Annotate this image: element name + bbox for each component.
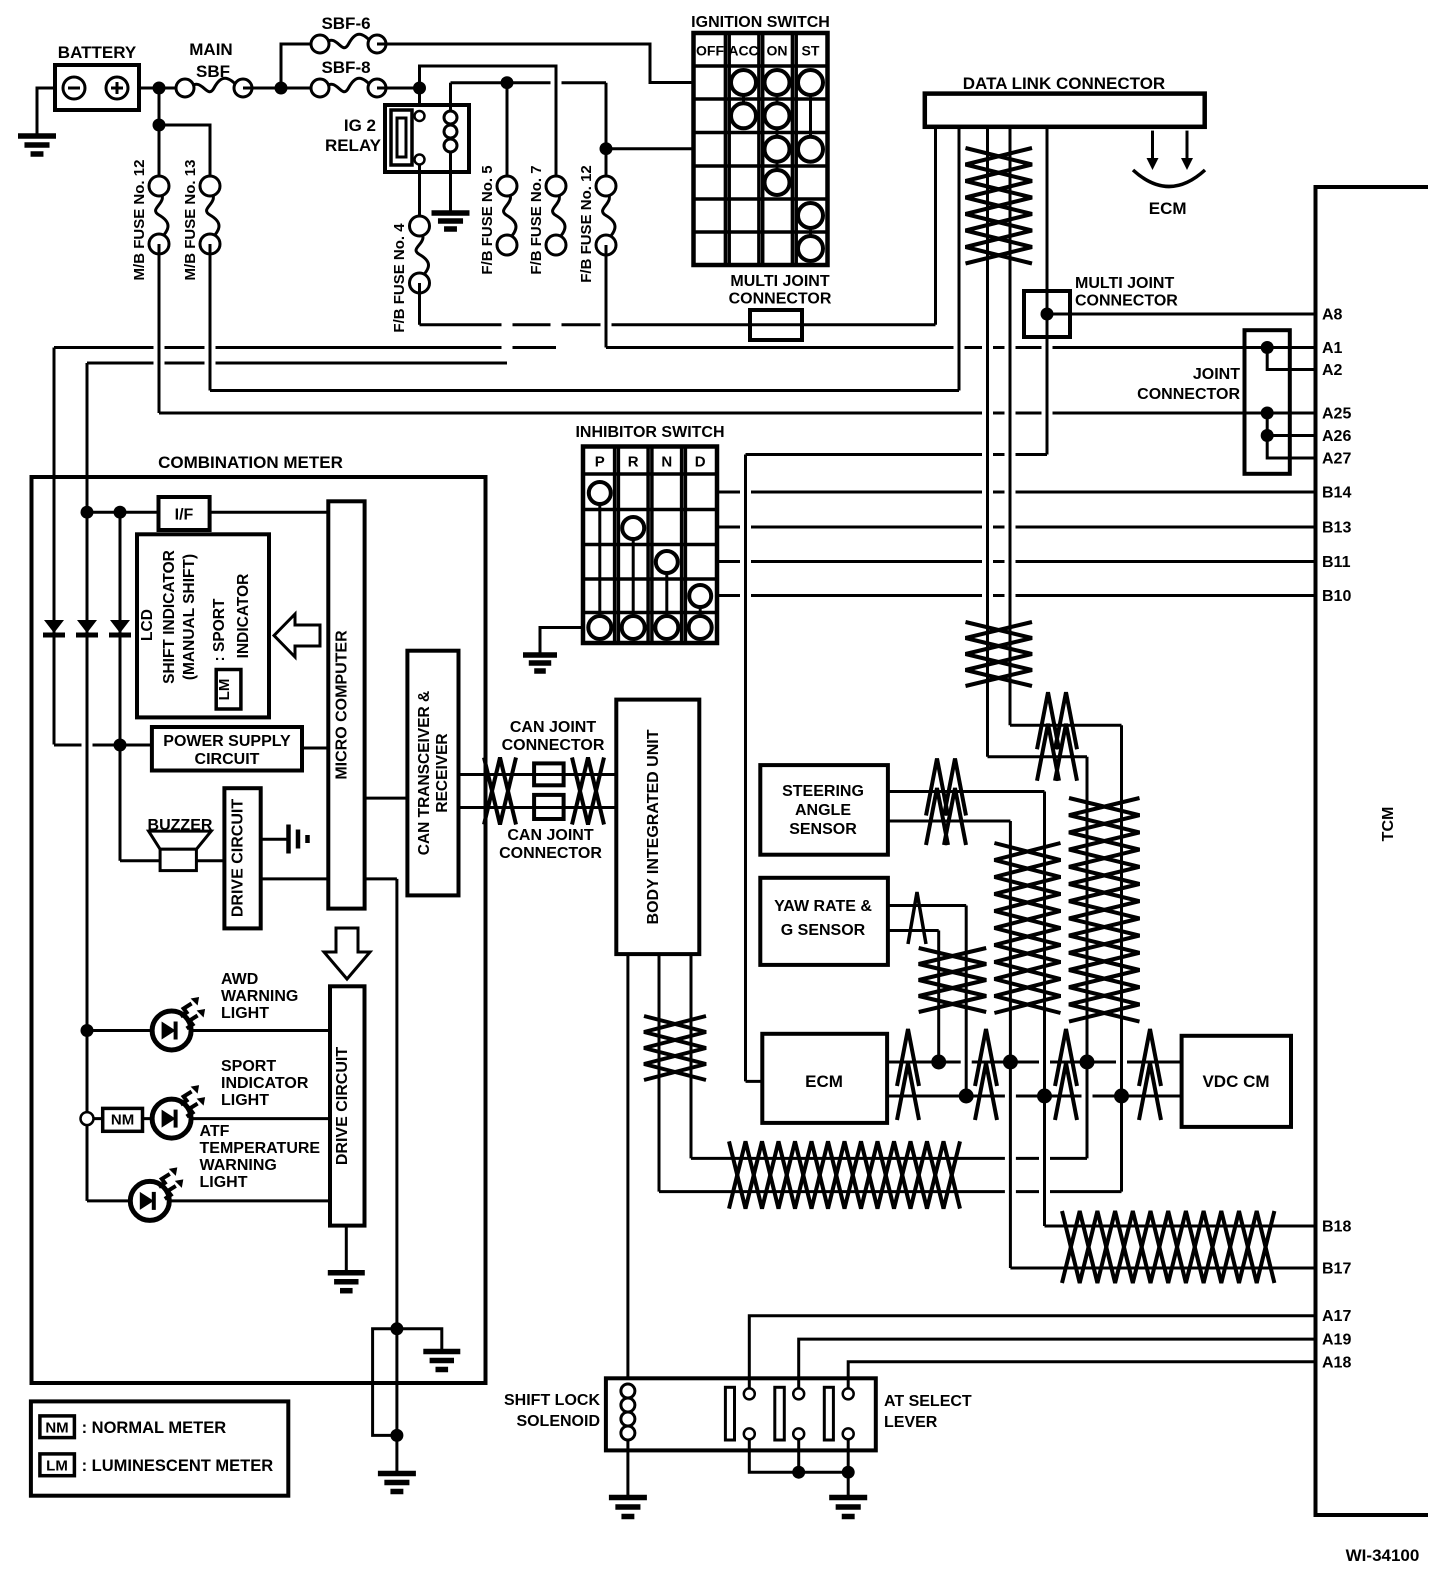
wire battery feed down to M/B fuses	[158, 88, 161, 186]
wire BIU pin1 to shift lock solenoid	[626, 954, 629, 1383]
svg-text:SOLENOID: SOLENOID	[516, 1413, 600, 1430]
svg-text:AWD: AWD	[221, 971, 258, 988]
svg-text:POWER SUPPLY: POWER SUPPLY	[163, 733, 291, 750]
LED ATF temperature warning light	[130, 1181, 169, 1220]
ground (AT select lever)	[829, 1495, 867, 1501]
wire battery positive to MAIN SBF	[139, 87, 185, 90]
wire relay contact to F/B fuse No.4	[418, 164, 421, 216]
svg-text:F/B FUSE No. 12: F/B FUSE No. 12	[578, 165, 595, 283]
wire ignition power bus to joint connector A1	[606, 346, 1316, 349]
wire lever commons	[749, 1439, 848, 1472]
svg-text:A8: A8	[1322, 307, 1343, 324]
ground (meter internal)	[423, 1349, 460, 1355]
wire buzzer to drive circuit	[196, 859, 224, 862]
combination meter box	[32, 477, 486, 1383]
ground (drive circuit, rotated)	[286, 825, 291, 854]
svg-text:JOINT: JOINT	[1193, 366, 1240, 383]
svg-text:MICRO COMPUTER: MICRO COMPUTER	[334, 630, 351, 780]
fuse MAIN SBF	[189, 78, 239, 92]
diode (meter supply 3)	[110, 620, 130, 633]
svg-text:N: N	[661, 454, 672, 471]
svg-text:I/F: I/F	[175, 507, 194, 524]
inhibitor switch column links	[598, 493, 601, 628]
wire CAN L meter to body integrated unit	[459, 806, 617, 809]
svg-text:CONNECTOR: CONNECTOR	[1137, 386, 1240, 403]
wire joint connector link A25-A27	[1267, 413, 1315, 458]
multi joint connector (ignition)	[750, 310, 802, 340]
wire M/B fuse No.13 bus to DLC pin2	[210, 389, 959, 392]
wire I/F to micro computer	[210, 511, 329, 514]
svg-text:A17: A17	[1322, 1308, 1351, 1325]
inhibitor switch grid	[583, 447, 717, 644]
node battery feed	[153, 82, 166, 95]
relay contact terminal bottom	[415, 155, 425, 165]
svg-text:A2: A2	[1322, 362, 1343, 379]
wire DLC CAN-B down	[1009, 127, 1012, 726]
svg-text:SBF: SBF	[196, 62, 230, 81]
wire ATF warning light	[87, 1199, 330, 1202]
fuse F/B No.12	[603, 190, 615, 241]
wire battery negative to ground	[37, 88, 55, 134]
legend NM box	[40, 1416, 75, 1438]
svg-text:WI-34100: WI-34100	[1346, 1546, 1420, 1565]
wire drive circuit to ground	[261, 838, 287, 841]
wire branch to M/B fuse No.13	[159, 125, 210, 186]
node I/F feed 1	[81, 506, 94, 519]
NM box	[103, 1108, 143, 1131]
wire steering sensor CAN 2	[888, 820, 1011, 823]
svg-text:F/B FUSE No. 4: F/B FUSE No. 4	[391, 223, 408, 333]
svg-text:M/B FUSE No. 13: M/B FUSE No. 13	[182, 160, 199, 281]
wire inhibitor R to TCM B13	[717, 526, 1316, 529]
wire steering sensor CAN 2 down	[1009, 821, 1012, 1268]
wire power supply to micro computer	[302, 747, 328, 750]
battery	[55, 65, 139, 110]
twisted pair (DLC CAN upper)	[966, 148, 1033, 264]
wire AWD warning light	[87, 1029, 330, 1032]
wire inhibitor P to TCM B14	[717, 491, 1316, 494]
drive circuit box (buzzer)	[224, 788, 260, 928]
wire meter supply 1 down	[53, 348, 56, 745]
wire node down to F/B fuse No.12	[605, 149, 608, 176]
LCD shift indicator box	[137, 534, 269, 717]
twisted pair (TCM B18/B17)	[1062, 1211, 1274, 1283]
twist marker (steering sensor)	[926, 759, 948, 816]
twisted pair (CAN meter right)	[572, 758, 604, 825]
buzzer	[149, 831, 212, 849]
node meter ground 2	[390, 1429, 403, 1442]
svg-text:RECEIVER: RECEIVER	[434, 733, 451, 812]
LED sport indicator light	[152, 1099, 191, 1138]
wire DLC CAN-B down	[1120, 725, 1123, 1191]
svg-text:MULTI JOINT: MULTI JOINT	[1075, 275, 1174, 292]
wire relay coil feed from ignition switch	[451, 81, 607, 84]
fuse SBF-6	[324, 34, 373, 48]
steering angle sensor box	[760, 765, 888, 855]
multi joint connector (diagnosis)	[1024, 291, 1070, 337]
svg-text:ANGLE: ANGLE	[795, 802, 851, 819]
wire CAN bus low	[887, 1095, 1182, 1098]
wire relay coil to ground	[449, 172, 452, 212]
wire to chassis ground	[395, 1435, 398, 1472]
svg-text:B18: B18	[1322, 1219, 1351, 1236]
solenoid coil	[621, 1384, 635, 1398]
wire meter supply 2 down	[86, 363, 89, 1201]
svg-text:LM: LM	[46, 1458, 68, 1475]
wire joint connector link to TCM A2	[1267, 348, 1315, 370]
node coil feed to F/B fuse No.5	[501, 76, 514, 89]
svg-text:ATF: ATF	[200, 1123, 230, 1140]
svg-text:CAN JOINT: CAN JOINT	[510, 719, 596, 736]
svg-text:B13: B13	[1322, 520, 1351, 537]
node CAN high yaw	[931, 1055, 946, 1070]
ignition switch contacts	[731, 70, 756, 95]
wire DLC pin2 down to M/B No.13 bus	[958, 127, 961, 391]
svg-text:CONNECTOR: CONNECTOR	[502, 737, 605, 754]
diode (meter supply 1)	[44, 620, 64, 633]
svg-text:INDICATOR: INDICATOR	[221, 1075, 309, 1092]
wire CAN bus high	[887, 1061, 1182, 1064]
svg-text:A18: A18	[1322, 1354, 1351, 1371]
svg-text:F/B FUSE No. 7: F/B FUSE No. 7	[528, 165, 545, 274]
wire diagnosis line to ECM	[746, 453, 1048, 456]
wire F/B fuse No.5 to meter	[87, 362, 507, 365]
wire down to F/B fuse No.5	[506, 83, 509, 176]
wire MAIN SBF to SBF fuses	[243, 87, 320, 90]
node CAN high DLC	[1080, 1055, 1095, 1070]
wire DLC CAN-A down	[1086, 757, 1089, 1159]
wire steering sensor CAN 1 down	[1043, 792, 1046, 1227]
svg-text:B11: B11	[1322, 554, 1351, 571]
svg-text:A19: A19	[1322, 1332, 1351, 1349]
twisted pair (CAN meter left)	[484, 758, 516, 825]
svg-text:A25: A25	[1322, 406, 1351, 423]
wire BIU CAN line 2	[659, 1190, 1122, 1193]
svg-text:B14: B14	[1322, 485, 1351, 502]
svg-text:LEVER: LEVER	[884, 1414, 938, 1431]
node lever common 2	[842, 1466, 855, 1479]
wire SBF-8 to IG2 relay contact	[377, 87, 420, 90]
svg-text:: LUMINESCENT METER: : LUMINESCENT METER	[82, 1457, 274, 1475]
svg-text:A26: A26	[1322, 428, 1351, 445]
CAN transceiver box	[407, 651, 458, 896]
ignition switch grid	[694, 33, 828, 265]
wire lever contact 2 to TCM A19	[799, 1339, 1316, 1388]
svg-text:CONNECTOR: CONNECTOR	[499, 845, 602, 862]
svg-text:LIGHT: LIGHT	[200, 1174, 248, 1191]
micro computer box	[328, 501, 364, 908]
wire meter supply 3 down	[119, 512, 122, 861]
node M/B fuse branch	[153, 119, 166, 132]
wire yaw sensor CAN 1	[888, 904, 966, 907]
AT select lever contact bars	[725, 1387, 734, 1440]
svg-text:OFF: OFF	[696, 43, 724, 59]
svg-text:(MANUAL SHIFT): (MANUAL SHIFT)	[181, 554, 198, 680]
svg-text:SBF-6: SBF-6	[321, 14, 370, 33]
node ignition ON feed	[600, 142, 613, 155]
ground (meter chassis)	[378, 1471, 416, 1477]
svg-text:G SENSOR: G SENSOR	[781, 922, 866, 939]
wire DLC CAN-A down	[986, 127, 989, 757]
fuse F/B No.4	[416, 230, 428, 279]
fuse SBF-8	[324, 78, 373, 92]
svg-text:B10: B10	[1322, 588, 1351, 605]
wire DLC pin5 / diagnosis line down	[1046, 127, 1049, 455]
relay IG2	[385, 105, 469, 172]
svg-text:WARNING: WARNING	[221, 988, 298, 1005]
wire node to ignition switch	[606, 147, 694, 150]
wire CAN H meter to body integrated unit	[459, 773, 617, 776]
wire BIU CAN line 1	[691, 1157, 1087, 1160]
legend LM box	[40, 1454, 75, 1476]
twisted pair (steering sensor risers)	[994, 843, 1060, 1013]
wire inhibitor D to TCM B10	[717, 594, 1316, 597]
node CAN low steering	[1037, 1089, 1052, 1104]
wire to meter internal ground	[397, 1329, 442, 1350]
data link connector	[925, 94, 1205, 127]
wire drive circuit 2 to ground	[345, 1226, 348, 1271]
ignition switch column links	[742, 83, 745, 116]
ground (battery)	[18, 133, 56, 139]
wire lever contact 1 to TCM A17	[749, 1316, 1315, 1388]
node CAN high steering	[1003, 1055, 1018, 1070]
fuse M/B No.13	[207, 190, 219, 240]
svg-text:WARNING: WARNING	[200, 1157, 277, 1174]
svg-text:A27: A27	[1322, 451, 1351, 468]
svg-text:A1: A1	[1322, 340, 1343, 357]
svg-text:MULTI JOINT: MULTI JOINT	[730, 273, 829, 290]
fuse F/B No.7	[553, 190, 565, 241]
svg-text:TCM: TCM	[1380, 807, 1397, 842]
wire yaw sensor CAN 2 down	[937, 931, 940, 1063]
wire TCM A26	[1267, 434, 1315, 437]
node lever common 1	[792, 1466, 805, 1479]
wire NM to sport LED	[93, 1117, 330, 1120]
arrow (micro computer down)	[324, 928, 370, 979]
svg-text:BATTERY: BATTERY	[58, 43, 137, 62]
ground (relay coil)	[432, 210, 470, 216]
twisted pair (BIU to CAN bus)	[729, 1141, 960, 1208]
svg-text:D: D	[695, 454, 706, 471]
I/F box	[159, 497, 210, 530]
svg-text:NM: NM	[45, 1420, 68, 1437]
svg-text:YAW RATE &: YAW RATE &	[774, 898, 872, 915]
wire SBF-6 to ignition switch	[377, 44, 694, 83]
svg-text:MAIN: MAIN	[189, 40, 232, 59]
svg-text:ACC: ACC	[728, 43, 758, 59]
power supply circuit box	[152, 727, 302, 771]
svg-text:SBF-8: SBF-8	[321, 58, 370, 77]
svg-text:: SPORT: : SPORT	[211, 598, 228, 661]
svg-text:DRIVE CIRCUIT: DRIVE CIRCUIT	[230, 799, 247, 917]
node relay contact feed	[413, 82, 426, 95]
ground (drive circuit 2)	[328, 1270, 365, 1276]
wire to buzzer	[120, 859, 160, 862]
joint connector	[1245, 330, 1290, 474]
svg-text:CONNECTOR: CONNECTOR	[729, 291, 832, 308]
wire branch up to SBF-6	[281, 44, 320, 88]
svg-text:STEERING: STEERING	[782, 783, 864, 800]
CAN joint connector box 1	[534, 763, 564, 785]
node I/F feed 2	[114, 506, 127, 519]
inhibitor switch contacts	[589, 482, 611, 504]
AT select lever terminals	[744, 1388, 755, 1399]
wire micro computer to meter ground	[365, 877, 397, 880]
svg-text:R: R	[628, 454, 639, 471]
VDC CM box	[1182, 1036, 1291, 1127]
node meter ground 1	[390, 1322, 403, 1335]
legend box	[31, 1401, 288, 1495]
svg-text:CIRCUIT: CIRCUIT	[195, 751, 260, 768]
wire power supply feed	[54, 744, 152, 747]
node CAN low yaw	[959, 1089, 974, 1104]
svg-text:DATA LINK CONNECTOR: DATA LINK CONNECTOR	[963, 74, 1165, 93]
svg-text:RELAY: RELAY	[325, 136, 382, 155]
wire solenoid to ground	[626, 1440, 629, 1496]
CAN joint connector box 2	[534, 795, 564, 819]
wire micro computer to CAN transceiver	[365, 797, 408, 800]
svg-text:LIGHT: LIGHT	[221, 1005, 269, 1022]
ground (shift lock solenoid)	[609, 1495, 647, 1501]
svg-text:IGNITION SWITCH: IGNITION SWITCH	[691, 14, 830, 31]
svg-text:B17: B17	[1322, 1261, 1351, 1278]
svg-text:ON: ON	[767, 43, 788, 59]
svg-text:ST: ST	[802, 43, 820, 59]
svg-text:AT SELECT: AT SELECT	[884, 1393, 972, 1410]
svg-text:NM: NM	[111, 1112, 134, 1129]
wire TCM B18	[1045, 1225, 1316, 1228]
ECM arrows (to ECM)	[1151, 131, 1154, 160]
wire DLC CAN-B jog	[1010, 724, 1122, 727]
wire inhibitor N to TCM B11	[717, 560, 1316, 563]
twisted pair (BIU)	[644, 1016, 706, 1080]
svg-text:SHIFT INDICATOR: SHIFT INDICATOR	[161, 550, 178, 684]
wire DLC CAN-A jog	[988, 755, 1088, 758]
wire F/B fuse No.4 to data link connector via multi joint connector	[418, 283, 421, 325]
svg-text:SPORT: SPORT	[221, 1058, 276, 1075]
LED AWD warning light	[152, 1011, 191, 1050]
wire M/B fuse No.12 backup bus to joint connector A25	[159, 412, 1316, 415]
fuse M/B No.12	[156, 190, 168, 240]
wire steering sensor CAN 1	[888, 790, 1045, 793]
node SBF branch	[275, 82, 288, 95]
svg-text:COMBINATION METER: COMBINATION METER	[158, 453, 343, 472]
svg-text:INDICATOR: INDICATOR	[235, 574, 252, 659]
wire TCM B17	[1010, 1267, 1315, 1270]
svg-text:LM: LM	[216, 679, 233, 701]
yaw rate and G sensor box	[760, 878, 888, 965]
svg-text:CONNECTOR: CONNECTOR	[1075, 293, 1178, 310]
svg-text:TEMPERATURE: TEMPERATURE	[200, 1140, 321, 1157]
svg-text:SHIFT LOCK: SHIFT LOCK	[504, 1392, 600, 1409]
wire meter ground down	[395, 879, 398, 1329]
wire down to node at ignition ON row	[605, 83, 608, 149]
svg-text:VDC CM: VDC CM	[1202, 1072, 1269, 1091]
svg-text:INHIBITOR SWITCH: INHIBITOR SWITCH	[575, 424, 724, 441]
twisted pair (yaw sensor)	[919, 948, 987, 1012]
node joint connector A26	[1261, 429, 1274, 442]
node AWD light feed	[81, 1024, 94, 1037]
LM box (sport indicator)	[216, 670, 241, 710]
wire BIU pin2 down	[658, 954, 661, 1192]
ECM box	[762, 1034, 887, 1123]
wire DLC pin1 down	[934, 127, 937, 325]
twisted pair (DLC CAN lower)	[966, 622, 1033, 686]
twist marker (CAN jog)	[1037, 692, 1059, 749]
body integrated unit box	[616, 700, 699, 955]
svg-text:CAN TRANSCEIVER &: CAN TRANSCEIVER &	[416, 691, 433, 855]
wire F/B fuse No.7 to meter	[54, 346, 556, 349]
svg-text:ECM: ECM	[1149, 199, 1187, 218]
svg-text:F/B FUSE No. 5: F/B FUSE No. 5	[479, 165, 496, 274]
ground (inhibitor switch)	[523, 652, 557, 658]
wire to I/F	[87, 511, 159, 514]
svg-text:CAN JOINT: CAN JOINT	[507, 827, 593, 844]
wire yaw sensor CAN 2	[888, 929, 939, 932]
node joint connector A25	[1261, 407, 1274, 420]
wire yaw sensor CAN 1 down	[965, 906, 968, 1097]
fuse F/B No.5	[504, 190, 516, 241]
svg-text:M/B FUSE No. 12: M/B FUSE No. 12	[131, 160, 148, 281]
node power supply feed	[114, 739, 127, 752]
svg-text:ECM: ECM	[805, 1072, 843, 1091]
node CAN low DLC	[1114, 1089, 1129, 1104]
svg-text:: NORMAL METER: : NORMAL METER	[82, 1419, 227, 1437]
svg-text:DRIVE CIRCUIT: DRIVE CIRCUIT	[334, 1047, 351, 1165]
wire BIU pin3 down	[690, 954, 693, 1158]
wire meter ground down 2	[395, 1329, 398, 1436]
drive circuit box (lights)	[330, 986, 365, 1225]
twisted pair (CAN risers)	[1069, 798, 1140, 1022]
svg-text:SENSOR: SENSOR	[789, 821, 857, 838]
wire TCM A8	[1047, 313, 1316, 316]
diode (meter supply 2)	[77, 620, 97, 633]
TCM box	[1316, 187, 1429, 1515]
shift lock solenoid box	[606, 1378, 876, 1450]
twist marker (yaw sensor)	[908, 892, 926, 944]
relay coil	[449, 105, 452, 111]
wire up to F/B fuse No.7 feed	[420, 66, 557, 176]
relay contact terminal top	[415, 111, 425, 121]
twist markers (CAN bus)	[897, 1029, 919, 1086]
terminal sport indicator	[81, 1112, 94, 1125]
wire inhibitor switch common to ground	[540, 628, 583, 654]
svg-text:LCD: LCD	[139, 609, 156, 641]
wire meter ground loop	[373, 1329, 397, 1436]
node diagnosis line in multi joint connector	[1041, 308, 1054, 321]
node joint connector A1	[1261, 341, 1274, 354]
svg-text:LIGHT: LIGHT	[221, 1092, 269, 1109]
wire drive circuit to micro computer	[261, 877, 329, 880]
arrow (micro computer to LCD)	[274, 614, 320, 657]
svg-text:IG 2: IG 2	[344, 116, 376, 135]
svg-text:P: P	[595, 454, 605, 471]
wire down to relay contact	[418, 88, 421, 112]
wire lever contact 3 to TCM A18	[848, 1362, 1315, 1388]
svg-text:BODY INTEGRATED UNIT: BODY INTEGRATED UNIT	[645, 729, 662, 924]
